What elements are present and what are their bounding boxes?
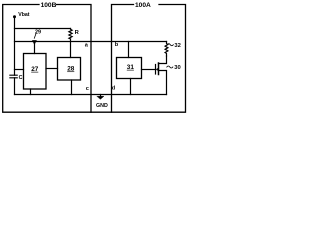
wire tap 29 into box 27 — [34, 42, 36, 54]
transistor Q30 channel bar — [158, 63, 160, 75]
arrowhead of tap 29 — [32, 40, 36, 44]
wire Vbat vertical drop (node Vbat to capacitor top) — [14, 17, 16, 75]
wire resistor R bottom into box 28 top — [70, 39, 72, 58]
box 100A (tool enclosure) — [112, 5, 186, 113]
svg-text:R: R — [75, 30, 80, 36]
ground symbol shaft — [100, 95, 102, 97]
svg-text:31: 31 — [127, 64, 135, 71]
svg-text:29: 29 — [35, 29, 41, 35]
box 100B (battery pack enclosure) — [3, 5, 91, 113]
ground symbol arrowhead — [97, 96, 104, 99]
wire node a to node b main horizontal — [15, 41, 167, 43]
wire b-wire drop to box 31 top — [128, 42, 130, 58]
node Vbat terminal dot — [13, 15, 16, 18]
resistor 32 — [165, 42, 168, 57]
leader squiggle label 30 — [167, 66, 173, 68]
svg-text:30: 30 — [174, 65, 180, 71]
capacitor C — [10, 75, 17, 78]
wire bottom border joining segment between boxes — [91, 111, 112, 113]
box 27 — [24, 54, 47, 90]
svg-text:28: 28 — [67, 65, 75, 72]
wire box 28 bottom stub to rail — [71, 80, 73, 95]
svg-text:b: b — [115, 42, 119, 48]
box 28 — [58, 58, 81, 81]
wire box 31 output to transistor gate — [142, 69, 156, 71]
svg-text:32: 32 — [174, 43, 180, 49]
wire capacitor bottom to ground rail — [14, 78, 16, 95]
transistor Q30 drain lead — [159, 56, 167, 64]
transistor Q30 gate bar — [155, 65, 157, 75]
wire capacitor node to box 27 left input — [15, 69, 24, 71]
wire top branch to resistor R — [15, 28, 71, 30]
leader line label 29 — [34, 33, 36, 38]
svg-text:100B: 100B — [41, 2, 57, 9]
svg-text:d: d — [112, 86, 116, 92]
transistor Q30 source lead — [159, 71, 167, 95]
wire ground rail (node c to node d) — [15, 94, 167, 96]
wire box 27 to box 28 — [46, 68, 58, 70]
box 31 — [117, 58, 142, 79]
svg-text:27: 27 — [31, 66, 39, 73]
svg-text:C: C — [19, 75, 23, 81]
wire box 27 bottom stub to rail — [30, 89, 32, 95]
svg-text:100A: 100A — [135, 2, 151, 9]
resistor R — [69, 29, 72, 40]
svg-text:a: a — [85, 42, 89, 48]
svg-text:GND: GND — [96, 103, 108, 109]
svg-text:c: c — [86, 86, 89, 92]
svg-text:Vbat: Vbat — [18, 12, 30, 18]
wire box 31 bottom stub to rail — [130, 79, 132, 95]
leader squiggle label 32 — [167, 44, 173, 46]
transistor Q30 body arrow — [156, 68, 158, 71]
